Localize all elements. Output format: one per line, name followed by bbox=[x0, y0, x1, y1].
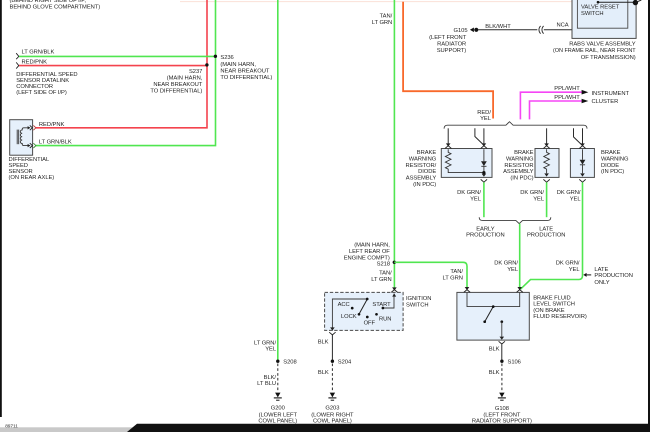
inline connector (( bbox=[539, 26, 544, 34]
sensor external connector chevrons bbox=[33, 125, 36, 130]
svg-text:S218: S218 bbox=[377, 261, 390, 267]
datalink connector pin (green wire) bbox=[16, 53, 19, 59]
splice S204 bbox=[331, 360, 334, 363]
ignition bottom exit arrow bbox=[330, 327, 335, 330]
svg-text:TO DIFFERENTIAL): TO DIFFERENTIAL) bbox=[150, 88, 202, 94]
svg-text:DK GRN/: DK GRN/ bbox=[557, 190, 581, 196]
splice S237 bbox=[205, 63, 208, 66]
svg-text:WARNING: WARNING bbox=[409, 156, 437, 162]
svg-text:SUPPORT): SUPPORT) bbox=[437, 48, 467, 54]
svg-text:LEFT REAR OF: LEFT REAR OF bbox=[349, 249, 390, 255]
brace early/late production bbox=[479, 217, 551, 223]
dashed wire S208 to G200 bbox=[277, 364, 279, 392]
sensor coil bbox=[20, 128, 30, 146]
ground G105 symbol bbox=[470, 28, 474, 33]
svg-text:DK GRN/: DK GRN/ bbox=[556, 261, 580, 267]
svg-text:ACC: ACC bbox=[338, 302, 350, 308]
wire at top of RABS box bbox=[598, 1, 635, 3]
arrow to box1 bottom exit bbox=[482, 174, 487, 177]
svg-text:LT GRN/BLK: LT GRN/BLK bbox=[39, 140, 72, 146]
interior U wiring bbox=[467, 292, 520, 306]
svg-text:G105: G105 bbox=[454, 28, 468, 34]
right page border bbox=[648, 0, 650, 432]
svg-text:(ON FRAME RAIL, NEAR FRONT: (ON FRAME RAIL, NEAR FRONT bbox=[553, 48, 636, 54]
ground G200 bbox=[275, 393, 280, 398]
svg-text:RADIATOR SUPPORT): RADIATOR SUPPORT) bbox=[472, 419, 532, 425]
svg-text:LATE: LATE bbox=[594, 267, 608, 273]
resistor R2 bbox=[544, 149, 550, 173]
svg-text:S236: S236 bbox=[220, 55, 233, 61]
RABS valve assembly outer box bbox=[572, 0, 636, 38]
svg-text:RESISTOR/: RESISTOR/ bbox=[405, 163, 436, 169]
svg-text:G200: G200 bbox=[271, 406, 285, 412]
svg-text:BLK: BLK bbox=[489, 370, 500, 376]
ground G203 bbox=[330, 393, 335, 398]
splice S218 bbox=[393, 261, 396, 264]
svg-text:BRAKE: BRAKE bbox=[514, 150, 534, 156]
ground G108 bbox=[499, 393, 504, 398]
svg-text:ASSEMBLY: ASSEMBLY bbox=[406, 176, 437, 182]
sensor core lines bbox=[16, 130, 18, 145]
svg-text:WARNING: WARNING bbox=[506, 156, 534, 162]
svg-text:YEL: YEL bbox=[470, 196, 482, 202]
wire DK GRN/YEL from box3 (late production only) bbox=[521, 182, 583, 289]
svg-text:(LEFT FRONT: (LEFT FRONT bbox=[429, 35, 467, 41]
svg-text:LT GRN: LT GRN bbox=[372, 20, 392, 26]
ignition interior wiring bbox=[332, 299, 367, 331]
dashed wire S106 to G108 bbox=[501, 364, 503, 392]
wire DK GRN/YEL from box1 bbox=[483, 182, 485, 217]
diode D2 bbox=[582, 149, 584, 160]
svg-text:OF TRANSMISSION): OF TRANSMISSION) bbox=[581, 55, 636, 61]
svg-text:PRODUCTION: PRODUCTION bbox=[466, 233, 504, 239]
svg-text:WARNING: WARNING bbox=[601, 156, 629, 162]
svg-text:LT GRN/BLK: LT GRN/BLK bbox=[22, 50, 55, 56]
svg-text:YEL: YEL bbox=[507, 267, 519, 273]
wire LT GRN/YEL long vertical to S208 bbox=[277, 0, 279, 360]
svg-text:DIFFERENTIAL SPEED: DIFFERENTIAL SPEED bbox=[16, 72, 77, 78]
svg-text:G203: G203 bbox=[325, 406, 339, 412]
datalink connector pin (red wire) bbox=[16, 62, 19, 68]
svg-text:LATE: LATE bbox=[539, 226, 553, 232]
svg-text:S106: S106 bbox=[508, 360, 521, 366]
svg-text:OFF: OFF bbox=[364, 321, 376, 327]
junction dot in box1 bbox=[482, 171, 485, 174]
svg-text:YEL: YEL bbox=[533, 196, 545, 202]
svg-text:(MAIN HARN,: (MAIN HARN, bbox=[354, 242, 390, 248]
svg-text:(BEHIND RIGHT SIDE OF I/P,: (BEHIND RIGHT SIDE OF I/P, bbox=[10, 0, 87, 4]
svg-text:BRAKE FLUID: BRAKE FLUID bbox=[533, 295, 570, 301]
svg-text:DIODE: DIODE bbox=[601, 163, 619, 169]
wire brace to box2 bbox=[546, 128, 548, 143]
diode D1 bbox=[483, 149, 485, 161]
wire LT GRN/BLK from datalink to S236 and sensor bbox=[36, 0, 216, 146]
svg-text:BRAKE: BRAKE bbox=[417, 150, 437, 156]
svg-text:RESISTOR: RESISTOR bbox=[504, 163, 533, 169]
splice S236 bbox=[214, 55, 217, 58]
wire LT GRN/BLK datalink horizontal bbox=[19, 55, 216, 57]
bottom black bar bbox=[127, 424, 650, 432]
ignition switch box bbox=[325, 292, 404, 330]
wire brace to box1 pin1 bbox=[447, 128, 449, 143]
switch lever bbox=[485, 307, 494, 322]
brake warning resistor assembly box U2 bbox=[535, 149, 559, 178]
wire NCA bbox=[544, 29, 578, 31]
svg-text:(IN PDC): (IN PDC) bbox=[413, 182, 436, 188]
svg-text:CLUSTER: CLUSTER bbox=[592, 99, 619, 105]
svg-text:LT GRN: LT GRN bbox=[371, 277, 391, 283]
svg-text:S237: S237 bbox=[189, 69, 202, 75]
svg-text:INSTRUMENT: INSTRUMENT bbox=[592, 91, 630, 97]
svg-text:START: START bbox=[372, 302, 391, 308]
svg-text:DIODE: DIODE bbox=[418, 169, 436, 175]
wire brace to box3 (diagonal) bbox=[574, 128, 582, 145]
svg-text:PRODUCTION: PRODUCTION bbox=[527, 233, 565, 239]
svg-text:TAN/: TAN/ bbox=[380, 14, 393, 20]
svg-text:LT GRN: LT GRN bbox=[442, 276, 462, 282]
svg-text:BLK: BLK bbox=[318, 340, 329, 346]
brake warning diode box U3 bbox=[570, 149, 594, 178]
svg-text:S204: S204 bbox=[338, 360, 352, 366]
sensor pin chevrons (inside box edge) bbox=[30, 125, 33, 130]
output wire inside box bbox=[501, 322, 503, 337]
dashed wire S204 to G203 bbox=[331, 364, 333, 392]
svg-text:S208: S208 bbox=[283, 360, 296, 366]
wire S218 to brake fluid switch bbox=[394, 262, 467, 287]
splice S106 bbox=[500, 360, 503, 363]
wire BLK ignition to S204 bbox=[331, 335, 333, 360]
svg-text:CONNECTOR: CONNECTOR bbox=[16, 84, 53, 90]
svg-text:TAN/: TAN/ bbox=[450, 269, 463, 275]
svg-text:G108: G108 bbox=[495, 406, 509, 412]
svg-text:NEAR BREAKOUT: NEAR BREAKOUT bbox=[153, 82, 202, 88]
wire BLK brake fluid switch to S106 bbox=[501, 344, 503, 360]
svg-text:(MAIN HARN,: (MAIN HARN, bbox=[220, 62, 256, 68]
svg-text:PPL/WHT: PPL/WHT bbox=[554, 95, 580, 101]
svg-text:PPL/WHT: PPL/WHT bbox=[554, 86, 580, 92]
svg-text:LEVEL SWITCH: LEVEL SWITCH bbox=[533, 302, 575, 308]
svg-text:VALVE RESET: VALVE RESET bbox=[581, 5, 620, 11]
svg-text:PRODUCTION: PRODUCTION bbox=[594, 273, 632, 279]
svg-text:DK GRN/: DK GRN/ bbox=[494, 261, 518, 267]
wire BLK/WHT bbox=[478, 29, 537, 31]
svg-text:BEHIND GLOVE COMPARTMENT): BEHIND GLOVE COMPARTMENT) bbox=[10, 5, 101, 11]
wire brace to box3 (straight) bbox=[582, 128, 584, 143]
svg-text:RABS VALVE ASSEMBLY: RABS VALVE ASSEMBLY bbox=[569, 41, 636, 47]
wire brace to box1 pin2 (straight) bbox=[483, 128, 485, 143]
svg-text:DK GRN/: DK GRN/ bbox=[520, 190, 544, 196]
ignition pin chevron top bbox=[391, 290, 397, 293]
svg-text:YEL: YEL bbox=[570, 196, 582, 202]
wires PPL/WHT to instrument cluster bbox=[520, 92, 581, 119]
svg-text:TO DIFFERENTIAL): TO DIFFERENTIAL) bbox=[220, 75, 272, 81]
arrow into ignition pin bbox=[392, 287, 397, 290]
svg-text:(ON REAR AXLE): (ON REAR AXLE) bbox=[9, 175, 55, 181]
svg-text:LOCK: LOCK bbox=[341, 314, 357, 320]
svg-text:BLK/WHT: BLK/WHT bbox=[485, 24, 511, 30]
pin chevrons box1 top bbox=[445, 146, 451, 149]
svg-text:(LEFT FRONT: (LEFT FRONT bbox=[483, 412, 521, 418]
svg-text:(LOWER LEFT: (LOWER LEFT bbox=[259, 412, 298, 418]
svg-text:BLK: BLK bbox=[318, 370, 329, 376]
svg-text:TAN/: TAN/ bbox=[379, 270, 392, 276]
svg-text:ASSEMBLY: ASSEMBLY bbox=[503, 169, 534, 175]
svg-text:IGNITION: IGNITION bbox=[406, 296, 431, 302]
svg-text:RADIATOR: RADIATOR bbox=[437, 42, 466, 48]
wire RED/PNK from datalink to S237 and sensor bbox=[36, 0, 207, 128]
brake fluid level switch box bbox=[457, 292, 529, 340]
wire DK GRN/YEL from box2 bbox=[546, 182, 548, 217]
svg-text:RED/PNK: RED/PNK bbox=[39, 122, 65, 128]
valve reset switch inner box bbox=[577, 0, 627, 28]
svg-text:NCA: NCA bbox=[557, 22, 569, 28]
svg-text:(MAIN HARN,: (MAIN HARN, bbox=[167, 76, 203, 82]
brace over PDC boxes bbox=[444, 122, 587, 129]
pin chevrons top bbox=[464, 290, 470, 293]
svg-text:FLUID RESERVOIR): FLUID RESERVOIR) bbox=[533, 314, 587, 320]
svg-text:(IN PDC): (IN PDC) bbox=[510, 176, 533, 182]
svg-text:(LOWER RIGHT: (LOWER RIGHT bbox=[311, 412, 354, 418]
splice S208 bbox=[276, 360, 279, 363]
pin chevron box1 bottom bbox=[481, 179, 487, 182]
svg-text:YEL: YEL bbox=[265, 346, 277, 352]
svg-text:SWITCH: SWITCH bbox=[406, 302, 429, 308]
ignition lever bbox=[359, 299, 367, 314]
wire brace to box1 pin2 (diagonal) bbox=[475, 128, 483, 144]
svg-text:(LEFT SIDE OF I/P): (LEFT SIDE OF I/P) bbox=[16, 90, 67, 96]
svg-text:NEAR BREAKOUT: NEAR BREAKOUT bbox=[220, 69, 269, 75]
wire RED/PNK datalink horizontal bbox=[19, 65, 207, 67]
left page border bbox=[0, 0, 2, 417]
resistor R1 bbox=[445, 149, 484, 172]
svg-text:ONLY: ONLY bbox=[594, 280, 609, 286]
faint cropped orange line at top bbox=[180, 1, 572, 3]
svg-text:RUN: RUN bbox=[379, 317, 391, 323]
svg-text:LT BLU: LT BLU bbox=[257, 381, 276, 387]
brake warning resistor/diode assembly box U1 bbox=[441, 149, 492, 178]
wire TAN/LT GRN vertical to S218 and ignition switch bbox=[393, 0, 395, 288]
svg-text:DK GRN/: DK GRN/ bbox=[457, 190, 481, 196]
svg-text:(IN PDC): (IN PDC) bbox=[601, 169, 624, 175]
differential speed sensor box bbox=[10, 120, 33, 156]
svg-text:(ON BRAKE: (ON BRAKE bbox=[533, 308, 565, 314]
svg-text:SENSOR DATALINK: SENSOR DATALINK bbox=[16, 78, 69, 84]
svg-text:BLK: BLK bbox=[489, 347, 500, 353]
svg-text:SWITCH: SWITCH bbox=[581, 11, 604, 17]
late production only pointer bbox=[583, 273, 586, 277]
svg-text:YEL: YEL bbox=[569, 267, 581, 273]
svg-text:YEL: YEL bbox=[480, 116, 492, 122]
wire RED/YEL orange bbox=[403, 2, 493, 119]
svg-text:RED/PNK: RED/PNK bbox=[22, 60, 48, 66]
svg-text:BRAKE: BRAKE bbox=[601, 150, 621, 156]
bottom gray strip bbox=[0, 427, 138, 432]
svg-text:EARLY: EARLY bbox=[476, 226, 495, 232]
wire DK GRN/YEL from brace to brake fluid switch bbox=[519, 224, 521, 288]
